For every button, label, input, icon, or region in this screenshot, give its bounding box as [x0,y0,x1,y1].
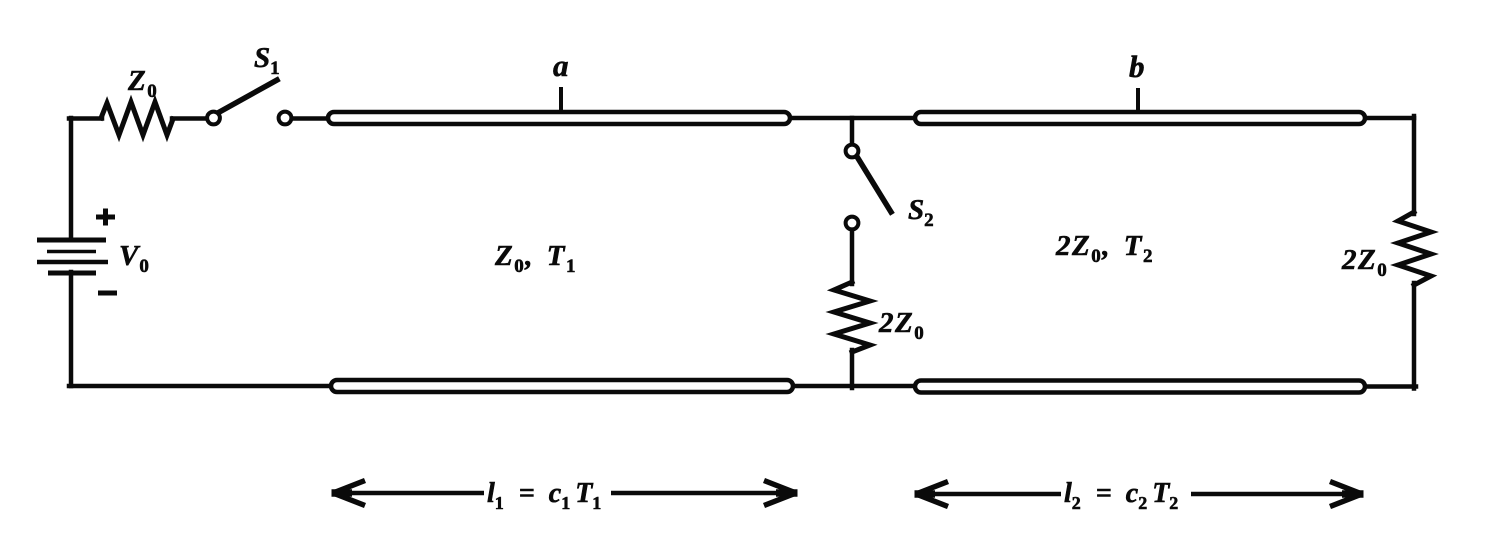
svg-text:a: a [553,48,569,83]
svg-text:b: b [1129,49,1145,84]
svg-text:2Z0, T2: 2Z0, T2 [1055,230,1154,267]
